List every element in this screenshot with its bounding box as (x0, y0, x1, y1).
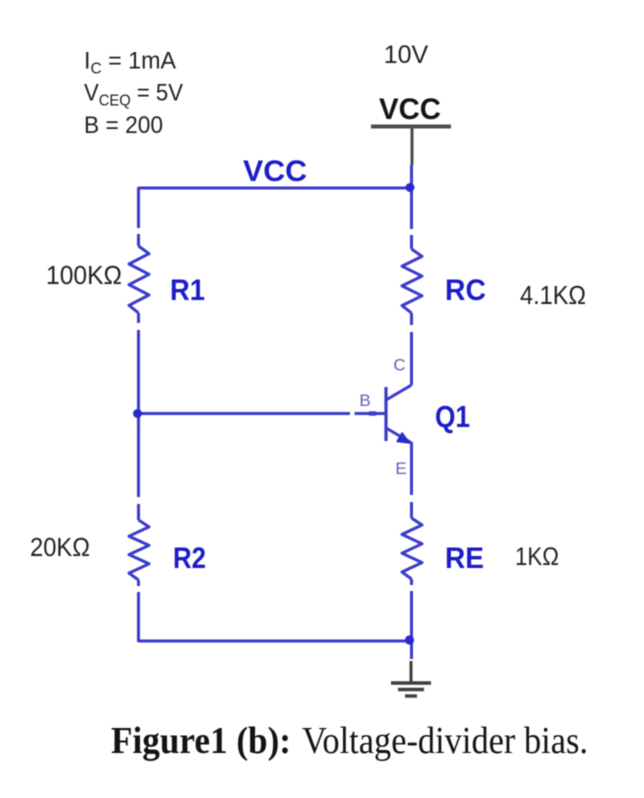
svg-text:Figure1 (b):: Figure1 (b): (111, 720, 291, 762)
svg-text:10V: 10V (384, 41, 429, 69)
svg-text:Q1: Q1 (435, 399, 470, 434)
svg-text:C: C (393, 356, 405, 375)
svg-text:RE: RE (445, 542, 484, 575)
svg-text:R1: R1 (170, 274, 205, 307)
svg-text:E: E (395, 459, 406, 478)
svg-text:R2: R2 (173, 542, 206, 575)
svg-text:B = 200: B = 200 (84, 112, 163, 139)
svg-text:4.1KΩ: 4.1KΩ (520, 280, 586, 310)
svg-text:1KΩ: 1KΩ (515, 543, 559, 571)
svg-text:20KΩ: 20KΩ (30, 532, 90, 562)
svg-text:VCC: VCC (379, 93, 441, 126)
svg-text:100KΩ: 100KΩ (46, 260, 122, 290)
svg-text:VCEQ = 5V: VCEQ = 5V (84, 80, 183, 110)
svg-text:B: B (359, 391, 370, 410)
svg-text:IC = 1mA: IC = 1mA (84, 48, 176, 78)
svg-text:Voltage-divider bias.: Voltage-divider bias. (302, 720, 588, 762)
svg-text:VCC: VCC (243, 155, 307, 188)
svg-text:RC: RC (445, 274, 486, 307)
